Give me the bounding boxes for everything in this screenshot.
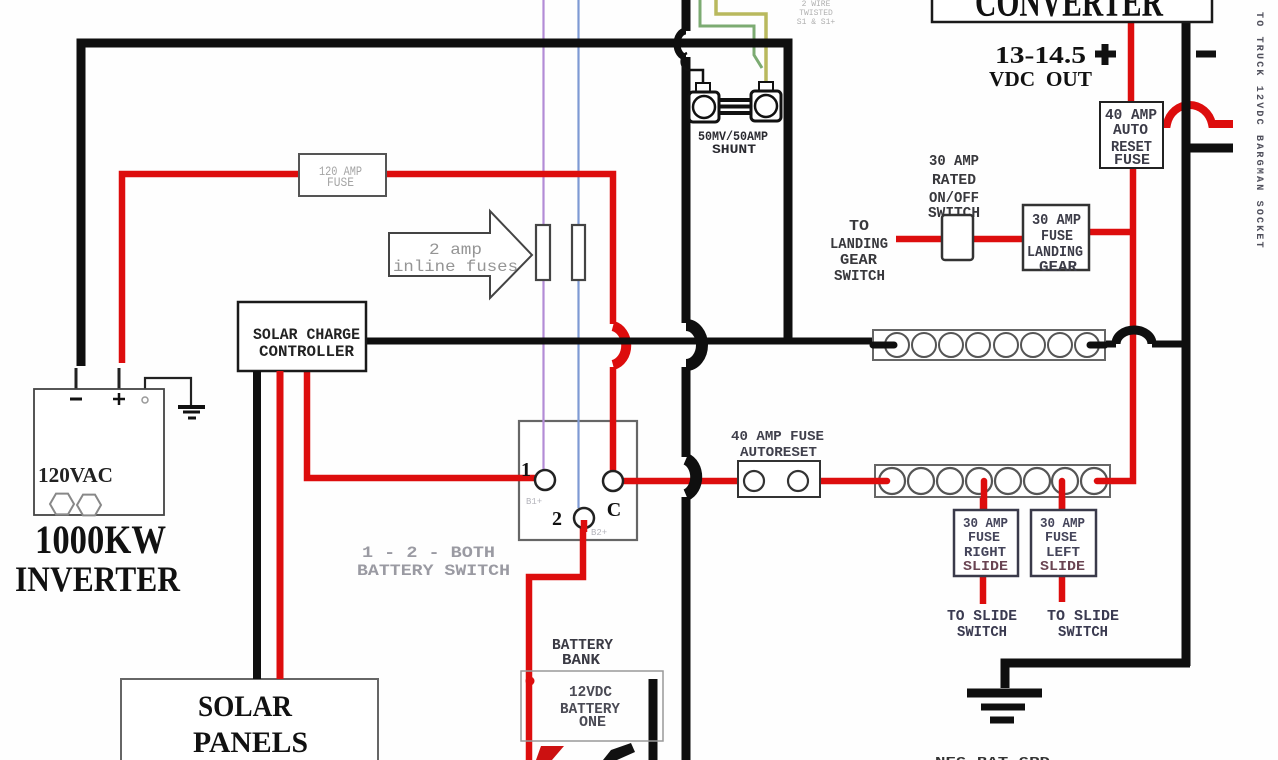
svg-text:GEAR: GEAR [840,252,877,269]
svg-text:CONTROLLER: CONTROLLER [259,343,354,361]
svg-text:1 - 2 - BOTH: 1 - 2 - BOTH [362,544,495,562]
svg-text:SOLAR: SOLAR [198,690,292,723]
svg-text:FUSE: FUSE [968,530,1000,546]
svg-text:AUTO: AUTO [1113,122,1148,139]
svg-text:BATTERY SWITCH: BATTERY SWITCH [357,562,510,580]
svg-text:B1+: B1+ [526,497,542,507]
svg-text:TO SLIDE: TO SLIDE [1047,609,1119,625]
svg-text:2 amp: 2 amp [429,241,482,259]
svg-text:INVERTER: INVERTER [15,559,181,599]
svg-text:1: 1 [521,459,531,481]
svg-text:inline fuses: inline fuses [393,258,518,276]
svg-text:TO: TO [849,218,869,235]
svg-text:C: C [607,499,621,521]
svg-text:BATTERY: BATTERY [552,638,613,654]
svg-text:SWITCH: SWITCH [834,268,885,285]
svg-text:SOLAR CHARGE: SOLAR CHARGE [253,326,360,344]
svg-text:TO TRUCK 12VDC BARGMAN SOCKET: TO TRUCK 12VDC BARGMAN SOCKET [1253,12,1264,250]
svg-text:SWITCH: SWITCH [957,625,1007,641]
svg-text:1000KW: 1000KW [35,517,166,562]
svg-text:2: 2 [552,508,562,530]
svg-text:13-14.5: 13-14.5 [995,43,1086,69]
svg-text:GEAR: GEAR [1039,259,1077,276]
svg-text:CONVERTER: CONVERTER [975,0,1163,26]
svg-text:B2+: B2+ [591,528,607,538]
svg-text:FUSE: FUSE [327,176,354,190]
svg-text:AUTORESET: AUTORESET [740,446,817,461]
svg-text:SHUNT: SHUNT [712,142,756,157]
svg-text:PANELS: PANELS [193,726,308,759]
svg-text:120VAC: 120VAC [38,463,113,487]
svg-text:VDC OUT: VDC OUT [989,67,1092,91]
svg-text:FUSE: FUSE [1045,530,1077,546]
svg-text:SWITCH: SWITCH [1058,625,1108,641]
svg-text:LANDING: LANDING [830,236,888,253]
svg-text:FUSE: FUSE [1114,152,1150,169]
svg-text:BANK: BANK [562,653,600,669]
svg-text:30 AMP: 30 AMP [929,153,979,170]
svg-text:SLIDE: SLIDE [963,559,1008,575]
svg-text:FUSE: FUSE [1041,228,1073,245]
svg-text:12VDC: 12VDC [569,685,612,701]
svg-text:RATED: RATED [932,172,976,189]
svg-text:ONE: ONE [579,715,606,731]
svg-text:S1 & S1+: S1 & S1+ [797,18,836,27]
svg-text:30 AMP: 30 AMP [1032,212,1081,229]
svg-text:SLIDE: SLIDE [1040,559,1085,575]
svg-text:2 WIRE: 2 WIRE [802,0,831,9]
svg-text:TO SLIDE: TO SLIDE [947,609,1017,625]
svg-text:NEG BAT GRD: NEG BAT GRD [935,755,1050,760]
svg-text:TWISTED: TWISTED [799,9,833,18]
svg-text:40 AMP FUSE: 40 AMP FUSE [731,430,824,445]
